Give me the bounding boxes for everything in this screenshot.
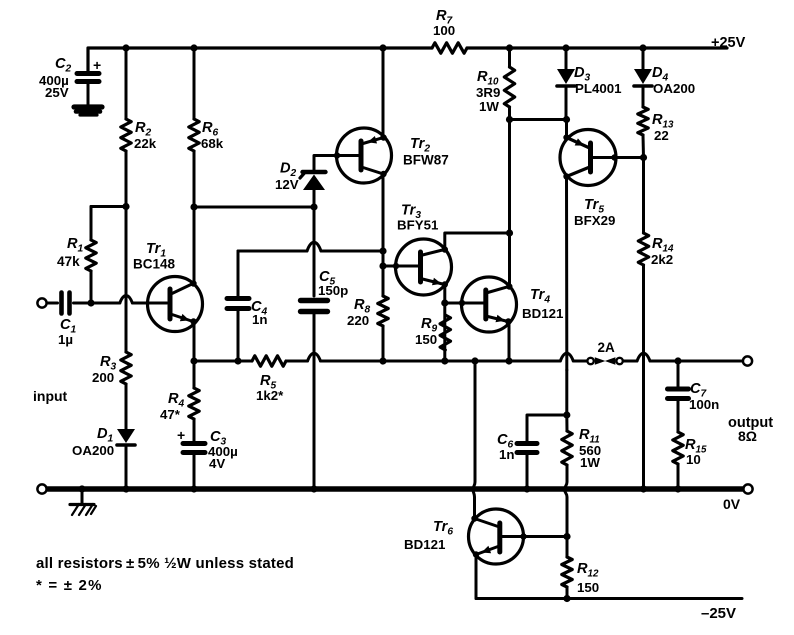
label C1 [58,317,77,347]
wire C6 tee [527,415,567,441]
label R4 [160,391,185,422]
wire R11 hop over 0V [565,465,568,537]
wire C4 top corner [238,242,383,251]
wire D4 top lead [642,48,645,69]
wire C1 to Tr1 base [74,296,168,304]
svg-text:150: 150 [577,580,599,595]
junction top rail Tr2 [379,44,386,51]
svg-text:22: 22 [654,128,669,143]
junction R12 -25V [563,595,570,602]
svg-text:150: 150 [415,332,437,347]
resistor R4 [189,388,199,419]
svg-text:–25V: –25V [701,605,736,622]
wire C7 top lead [677,361,680,387]
label Tr1 [133,241,176,272]
label C5 [318,269,348,298]
svg-text:47k: 47k [57,254,80,269]
junction R8 rail [379,357,386,364]
wire Tr4 base [445,302,484,305]
resistor R2 [121,119,131,151]
svg-text:OA200: OA200 [72,443,114,458]
svg-text:1µ: 1µ [58,332,73,347]
svg-text:BFW87: BFW87 [403,153,449,168]
svg-text:+: + [93,57,101,73]
wire -25V rail [476,597,742,600]
resistor R10 [504,67,514,107]
junction R15 0V [674,485,681,492]
svg-text:200: 200 [92,370,114,385]
wire R1 upper lead [90,207,93,241]
wire D2 anode to node [313,189,316,207]
label C3 plus [177,427,185,443]
junction C6 0V [523,485,530,492]
capacitor C5 [301,301,328,312]
svg-text:8Ω: 8Ω [738,428,757,444]
transistor Tr4 [459,277,517,332]
label C3 [208,429,238,471]
resistor R13 [638,107,648,135]
label C2 plus [93,57,101,73]
resistor R7 [432,43,467,53]
svg-text:OA200: OA200 [653,81,695,96]
label R10 [476,69,500,114]
label R15 [685,437,707,467]
wire Tr6 emitter down [475,555,478,599]
label +25V [711,35,746,51]
junction top rail R6 [190,44,197,51]
diode D4 [634,69,652,86]
label R13 [652,112,674,143]
label C4 [251,299,268,327]
wire node to R14 [642,158,645,234]
svg-text:PL4001: PL4001 [575,81,622,96]
fuse 2A [587,357,622,365]
diode D1 [117,429,135,445]
junction Tr3 emitter Tr4 base [441,299,448,306]
label Tr5 [574,197,615,228]
svg-text:25V: 25V [45,85,69,100]
resistor R8 [378,296,388,326]
wire node to R3 [125,206,128,352]
svg-text:* = ± 2%: * = ± 2% [36,577,103,594]
wire R14 down to 0V [642,265,645,489]
wire D3 cathode down [565,88,568,120]
resistor R14 [638,233,648,265]
note star [36,577,103,594]
resistor R15 [673,432,683,464]
wire C3 to 0V [193,455,196,489]
junction D1 0V [122,485,129,492]
wire R4 to C3 [193,419,196,441]
svg-text:BC148: BC148 [133,257,176,272]
resistor R3 [121,352,131,384]
junction Tr2 C4 [379,247,386,254]
resistor R1 [86,240,96,271]
wire R2 column top [125,48,128,119]
capacitor C1 [62,293,70,314]
svg-text:1W: 1W [580,455,600,470]
junction Tr1 emitter rail [190,357,197,364]
wire R1 top [91,205,126,208]
label R5 [256,373,284,403]
wire R8 to rail [382,326,385,361]
wire R6 to node [193,151,196,207]
svg-text:1k2*: 1k2* [256,388,284,403]
wire R10 to D3 [510,118,567,121]
transistor Tr2 [334,128,392,183]
junction C7 rail [674,357,681,364]
svg-text:220: 220 [347,313,369,328]
wire 0V rail [48,486,744,491]
junction R14 0V [640,485,647,492]
wire R10 top lead [508,48,511,67]
junction gnd 0V [78,485,85,492]
wire D2 cathode corner [314,156,359,171]
junction top rail D4 [639,44,646,51]
capacitor C3 [183,444,205,453]
junction Tr5 base node [640,154,647,161]
svg-text:1n: 1n [499,447,515,462]
wire Tr4 emitter down [508,322,511,362]
capacitor C4 [227,251,249,361]
label R12 [577,561,599,595]
resistor R6 [189,119,199,151]
wire node to Tr1 collector [193,207,196,283]
label C2 [39,56,72,100]
svg-text:68k: 68k [201,136,224,151]
wire Tr2 emitter to top rail [382,48,385,138]
label Tr3 [397,203,439,233]
label Tr2 [403,136,449,168]
svg-text:150p: 150p [318,283,348,298]
resistor R9 [440,315,450,350]
wire R6 column top [193,48,196,119]
capacitor C6 [517,444,537,453]
junction top rail R10 [506,44,513,51]
label R6 [201,120,224,151]
wire Tr3 emitter column [443,285,446,362]
wire D3 to Tr5 emitter [565,120,568,138]
wire R13 to node [642,135,646,158]
label Tr4 [522,287,564,321]
wire R10 bottom lead [508,107,511,120]
wire Tr3 collector up [445,233,510,250]
label C6 [497,432,515,462]
svg-text:22k: 22k [134,136,157,151]
junction R9 rail [441,357,448,364]
wire C7 to R15 [677,401,680,432]
diode D2 zener [300,172,326,190]
resistor R12 [562,557,572,587]
wire +25V top rail [88,48,727,71]
svg-text:all resistors ± 5% ½W unless s: all resistors ± 5% ½W unless stated [36,555,294,572]
label D4 [652,65,695,96]
label R7 [433,8,455,38]
svg-text:BFY51: BFY51 [397,218,439,233]
junction R11 Tr6 base [563,533,570,540]
junction R1 input [87,299,94,306]
wire Tr1 emitter column [193,322,196,362]
label R2 [134,120,157,151]
note tolerances [36,555,294,572]
diode D3 [557,69,575,86]
svg-text:input: input [33,388,68,404]
svg-text:BD121: BD121 [404,537,446,552]
wire emitter to R4 [193,361,196,388]
svg-text:100n: 100n [689,397,719,412]
wire R12 to -25V [566,587,569,599]
wire Tr2 collector column [382,174,385,296]
ground under C2 [74,107,102,115]
svg-text:10: 10 [686,452,701,467]
wire R3 to D1 [125,384,128,429]
svg-text:47*: 47* [160,407,181,422]
wire input to C1 [47,302,58,305]
wire C6 to 0V [526,455,529,489]
resistor R11 [562,431,572,465]
terminal input ground left [37,484,46,493]
svg-text:BD121: BD121 [522,306,564,321]
label Tr6 [404,519,453,552]
wire Tr6 collector column [473,361,475,519]
terminal output [743,356,752,365]
terminal 0V right [743,484,752,493]
capacitor C7 [668,389,689,399]
transistor Tr5 [560,130,618,186]
svg-text:1n: 1n [252,312,268,327]
wire R1 lower lead [90,271,93,303]
junction R2 R1 [122,203,129,210]
wire bias node to D2 [194,206,314,209]
wire D1 to 0V [125,447,128,489]
junction Tr6 collector rail [471,357,478,364]
label output 8ohm [728,415,773,444]
label R14 [651,236,674,267]
wire Tr4 collector up [508,233,511,287]
junction R6 D2 node [190,203,197,210]
wire D3 top lead [565,48,568,69]
transistor Tr1 [148,277,203,332]
wire Tr6 base [502,535,568,538]
junction C5 0V [310,485,317,492]
wire Tr5 col to R11 [565,415,568,431]
label 2A [598,340,616,355]
wire D4 to R13 [642,88,645,107]
wire Tr5 base to R13 R14 node [592,156,644,159]
label R11 [579,427,601,470]
svg-text:12V: 12V [275,177,299,192]
wire R2 to bias node [125,151,128,206]
transistor Tr3 [393,239,452,295]
junction top rail R2 [122,44,129,51]
svg-text:1W: 1W [479,99,499,114]
label 0V [723,496,741,512]
label D1 [72,426,114,458]
transistor Tr6 [469,509,527,564]
label C7 [689,381,719,412]
wire Tr5 collector down [565,177,568,416]
wire R12 top [566,537,569,558]
label input [33,388,68,404]
junction Tr5 collector C6 [563,411,570,418]
label D2 [275,161,299,193]
junction Tr2 Tr3 base [379,262,386,269]
svg-text:+25V: +25V [711,35,746,51]
junction top rail D3 [562,44,569,51]
resistor R5 [252,356,286,366]
junction Tr4 emitter rail [505,357,512,364]
label D3 [574,65,622,96]
svg-text:2A: 2A [598,340,616,355]
wire D2 column down [313,207,316,296]
svg-text:2k2: 2k2 [651,252,673,267]
label R3 [92,354,117,385]
ground bottom left [70,491,96,515]
svg-text:+: + [177,427,185,443]
wire R10 node down [508,120,511,234]
wire R15 to 0V [677,464,680,489]
wire C5 to 0V [313,315,316,490]
svg-text:3R9: 3R9 [476,85,500,100]
label R1 [57,236,84,269]
svg-text:BFX29: BFX29 [574,213,615,228]
junction D3 Tr5 emitter [563,116,570,123]
wire Tr3 base [383,265,418,268]
terminal input [37,298,46,307]
label -25V [701,605,736,622]
svg-text:0V: 0V [723,496,741,512]
junction C4 rail [234,357,241,364]
label R8 [347,297,371,328]
junction C3 0V [190,485,197,492]
capacitor C2 [77,48,99,105]
svg-text:4V: 4V [209,456,225,471]
label R9 [415,316,438,347]
junction R10 D3 [506,116,513,123]
wire output rail [194,353,742,361]
junction D2 node [310,203,317,210]
junction Tr3 Tr4 collectors [506,229,513,236]
svg-text:100: 100 [433,23,455,38]
